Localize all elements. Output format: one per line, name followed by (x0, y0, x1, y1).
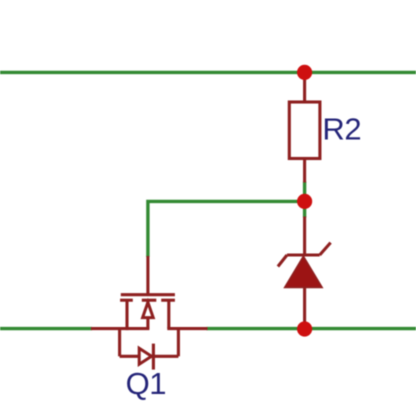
body diode triangle (139, 348, 151, 364)
body diode loop right (177, 329, 180, 357)
body diode cathode bar (152, 344, 155, 370)
resistor R2 (289, 71, 320, 183)
drain drop (167, 300, 170, 328)
wire top rail (0, 71, 416, 74)
svg-text:R2: R2 (322, 112, 361, 147)
gate pin (146, 256, 149, 295)
transistor Q1 (NMOS with body diode) (91, 256, 208, 370)
channel segment right (161, 299, 175, 302)
svg-text:Q1: Q1 (126, 366, 167, 401)
wire bottom rail right segment (207, 327, 416, 330)
gate bar (121, 293, 175, 296)
junction node middle (297, 194, 312, 209)
body diode loop left (118, 329, 121, 357)
junction node top (297, 65, 312, 80)
wire middle horizontal from gate column to junction (148, 201, 305, 257)
body diode bottom line (120, 355, 179, 358)
source terminal line (91, 327, 149, 330)
zener diode D1 (278, 217, 331, 330)
junction node bottom (297, 321, 312, 336)
wire bottom rail left segment (0, 327, 92, 330)
wire green stub below middle junction (303, 201, 306, 217)
wire green stub above middle junction (303, 182, 306, 202)
source drop (125, 300, 128, 330)
substrate arrow (143, 302, 154, 317)
channel segment middle (142, 299, 157, 302)
channel segment left (120, 299, 133, 302)
substrate line (146, 300, 149, 328)
drain terminal line (167, 327, 207, 330)
